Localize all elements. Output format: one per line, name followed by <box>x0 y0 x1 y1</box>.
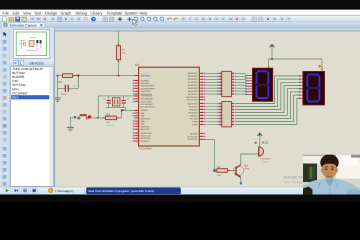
transistor Q1 <box>234 164 250 177</box>
tab bar <box>0 22 360 27</box>
svg-text:RC0/AN: RC0/AN <box>190 132 198 135</box>
svg-text:RC3/SCK: RC3/SCK <box>141 140 150 143</box>
svg-text:+: + <box>74 84 76 88</box>
ground (button) <box>69 118 71 127</box>
svg-text:RC2/CCP1: RC2/CCP1 <box>141 137 152 140</box>
button SW1 <box>70 114 88 119</box>
wire MCLR rail <box>59 75 63 77</box>
svg-text:RD5/PSP5: RD5/PSP5 <box>188 87 199 90</box>
svg-text:RD6/PSP6: RD6/PSP6 <box>188 90 199 93</box>
U1 pin numbers <box>136 73 138 142</box>
svg-text:RB6/PGC: RB6/PGC <box>141 125 150 128</box>
svg-text:RA2/AN2/VREF-: RA2/AN2/VREF- <box>141 85 156 88</box>
svg-text:RC7/RX: RC7/RX <box>190 117 198 120</box>
junction crystal drop <box>97 117 99 119</box>
svg-text:Debug: Debug <box>76 10 87 15</box>
resistor R4 (reset pull-up) <box>63 74 78 78</box>
7-seg display DISP2 <box>299 71 325 105</box>
svg-text:Design: Design <box>45 10 57 15</box>
wire VCC to R3 <box>118 31 120 43</box>
left object selector panel <box>10 27 55 187</box>
svg-text:RE1/WR/AN6: RE1/WR/AN6 <box>141 98 154 101</box>
U1 left pin labels <box>141 74 157 142</box>
status bar <box>0 187 360 195</box>
schematic canvas <box>55 31 360 187</box>
wire collector to buzzer <box>241 154 259 164</box>
svg-text:RD2/PSP2: RD2/PSP2 <box>188 78 199 81</box>
wire R3 to MCLR rail <box>118 62 120 75</box>
ground (reset cap) <box>54 98 61 102</box>
svg-text:System: System <box>125 10 138 15</box>
junction reset node <box>77 74 79 76</box>
svg-text:7 Message(s): 7 Message(s) <box>55 189 74 193</box>
svg-text:?: ? <box>93 18 95 22</box>
wire R2 to base <box>231 170 236 172</box>
svg-text:NPN: NPN <box>245 168 250 171</box>
7-seg display DISP1 <box>245 66 273 101</box>
microcontroller U1 PIC16F887 <box>139 67 200 146</box>
svg-text:Schematic Capture: Schematic Capture <box>10 23 37 27</box>
power terminal (reset) <box>57 75 59 77</box>
svg-text:RC0/T1OSO: RC0/T1OSO <box>186 96 198 99</box>
wires U1 to resistor packs <box>206 73 219 124</box>
svg-text:OSC2/CLKOUT: OSC2/CLKOUT <box>141 106 156 109</box>
svg-text:RD7/PSP7: RD7/PSP7 <box>188 93 199 96</box>
crystal X1 <box>98 96 138 118</box>
resistor R3 <box>116 44 126 63</box>
wire button to R1 <box>91 117 102 119</box>
svg-text:C1: C1 <box>59 80 63 84</box>
svg-text:<TEXT>: <TEXT> <box>262 160 270 163</box>
svg-text:RES: RES <box>12 95 18 99</box>
svg-text:RC1/T1OSI: RC1/T1OSI <box>141 135 152 138</box>
svg-text:MCLR/Vpp: MCLR/Vpp <box>141 74 152 77</box>
MCLR pin highlight <box>140 74 148 77</box>
capacitor C1 <box>58 77 79 97</box>
svg-text:Real Time Simulation in progre: Real Time Simulation in progress : press… <box>89 190 155 193</box>
left mode toolbar <box>0 27 10 187</box>
junction button/R1 node <box>88 115 91 118</box>
wires RN1 to DISP1 <box>236 73 246 94</box>
svg-text:RC1/T1OSI: RC1/T1OSI <box>187 99 198 102</box>
svg-text:RD3/PSP3: RD3/PSP3 <box>188 81 199 84</box>
DEVICES header <box>10 60 55 67</box>
svg-text:RC6/TX: RC6/TX <box>190 114 198 117</box>
junction RB0 node <box>121 109 123 111</box>
svg-text:RA0/AN0: RA0/AN0 <box>141 79 150 82</box>
wire reset node to MCLR pin <box>79 75 138 77</box>
svg-text:Template: Template <box>107 10 123 15</box>
wire RC pin to R2 <box>204 139 215 169</box>
VCC (buzzer) <box>257 133 262 136</box>
svg-text:U1: U1 <box>135 63 139 67</box>
emitter terminal <box>240 177 242 182</box>
resistor pack RN1 <box>217 71 236 96</box>
svg-text:BUZZER: BUZZER <box>262 158 271 161</box>
svg-text:RC4/SDI: RC4/SDI <box>190 108 198 111</box>
buzzer BUZ1 <box>255 142 271 164</box>
svg-text:RB7/PGD: RB7/PGD <box>141 128 150 131</box>
svg-text:RA1/AN1: RA1/AN1 <box>141 82 150 85</box>
svg-text:DEVICES: DEVICES <box>30 62 44 66</box>
svg-text:RD1/PSP1: RD1/PSP1 <box>188 75 199 78</box>
wire R1 to RB0 <box>120 110 139 118</box>
svg-text:RB0/INT: RB0/INT <box>141 109 149 112</box>
resistor pack RN2 <box>217 102 236 127</box>
menu bar <box>0 10 360 16</box>
junction R3/MCLR <box>118 75 120 77</box>
svg-text:RB3/PGM: RB3/PGM <box>141 117 150 120</box>
svg-text:10uF: 10uF <box>61 93 67 96</box>
svg-text:RC0/T1OSO: RC0/T1OSO <box>141 132 153 135</box>
svg-text:RD0/PSP0: RD0/PSP0 <box>188 72 199 75</box>
U1 left pins <box>133 76 139 142</box>
VCC rail for displays <box>269 45 322 72</box>
svg-text:View: View <box>23 10 32 15</box>
svg-text:PSP6: PSP6 <box>192 120 198 123</box>
svg-text:Help: Help <box>140 10 148 15</box>
top letterbox bar <box>0 0 360 10</box>
staircase wires RN2 to DISP2 <box>236 76 300 125</box>
svg-text:RD4/PSP4: RD4/PSP4 <box>188 84 199 87</box>
svg-text:RC2/CCP1: RC2/CCP1 <box>188 138 199 141</box>
svg-text:RC3/SCK: RC3/SCK <box>189 105 198 108</box>
svg-text:RA3/AN3/VREF+: RA3/AN3/VREF+ <box>141 87 157 90</box>
devices list <box>11 66 53 186</box>
svg-text:R1: R1 <box>107 113 111 116</box>
U1 right pin labels <box>186 72 198 141</box>
svg-text:OSC1/CLKIN: OSC1/CLKIN <box>141 103 153 106</box>
svg-text:File: File <box>3 10 9 15</box>
resistor R1 <box>102 113 120 127</box>
svg-text:Tool: Tool <box>34 10 41 15</box>
svg-text:Library: Library <box>91 10 103 15</box>
svg-text:BUZ1: BUZ1 <box>262 142 269 145</box>
terminal R2 left <box>213 169 216 172</box>
main toolbar <box>0 16 360 22</box>
bottom letterbox bar <box>0 195 360 203</box>
svg-text:RA4/T0CKI: RA4/T0CKI <box>141 90 152 93</box>
resistor R2 <box>216 166 231 177</box>
svg-text:R2: R2 <box>217 166 221 169</box>
mouse cursor <box>133 19 138 25</box>
svg-text:RC5/SDO: RC5/SDO <box>189 111 198 114</box>
svg-text:Q1: Q1 <box>244 164 248 167</box>
svg-text:Graph: Graph <box>61 10 72 15</box>
svg-text:PIC16F887: PIC16F887 <box>139 148 153 151</box>
svg-text:RE0/RD/AN5: RE0/RD/AN5 <box>141 95 154 98</box>
svg-text:<TEXT>: <TEXT> <box>106 124 115 127</box>
svg-text:!: ! <box>50 189 51 193</box>
wire down to C1 branch <box>57 76 59 98</box>
svg-text:L: L <box>20 62 22 66</box>
U1 right pins <box>199 73 205 141</box>
svg-text:RC1/CCP2: RC1/CCP2 <box>188 135 199 138</box>
webcam overlay <box>303 154 360 195</box>
svg-text:RE2/CS/AN7: RE2/CS/AN7 <box>141 100 154 103</box>
svg-text:RC2/CCP1: RC2/CCP1 <box>188 102 199 105</box>
svg-text:PSP7: PSP7 <box>192 123 198 126</box>
svg-text:Edit: Edit <box>13 10 21 15</box>
overview minimap <box>13 29 49 58</box>
